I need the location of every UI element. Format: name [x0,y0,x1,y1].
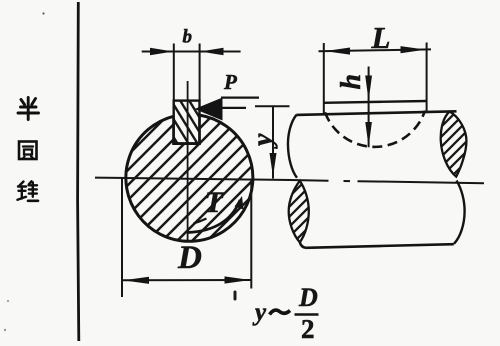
svg-text:P: P [223,70,237,94]
svg-text:D: D [177,240,202,276]
svg-text:h: h [336,74,367,90]
svg-text:y: y [248,133,279,149]
svg-text:D: D [298,283,318,312]
svg-text:T: T [205,186,225,219]
svg-text:b: b [183,27,193,48]
svg-text:2: 2 [301,314,315,344]
svg-text:y: y [252,299,267,326]
svg-text:L: L [371,20,391,55]
